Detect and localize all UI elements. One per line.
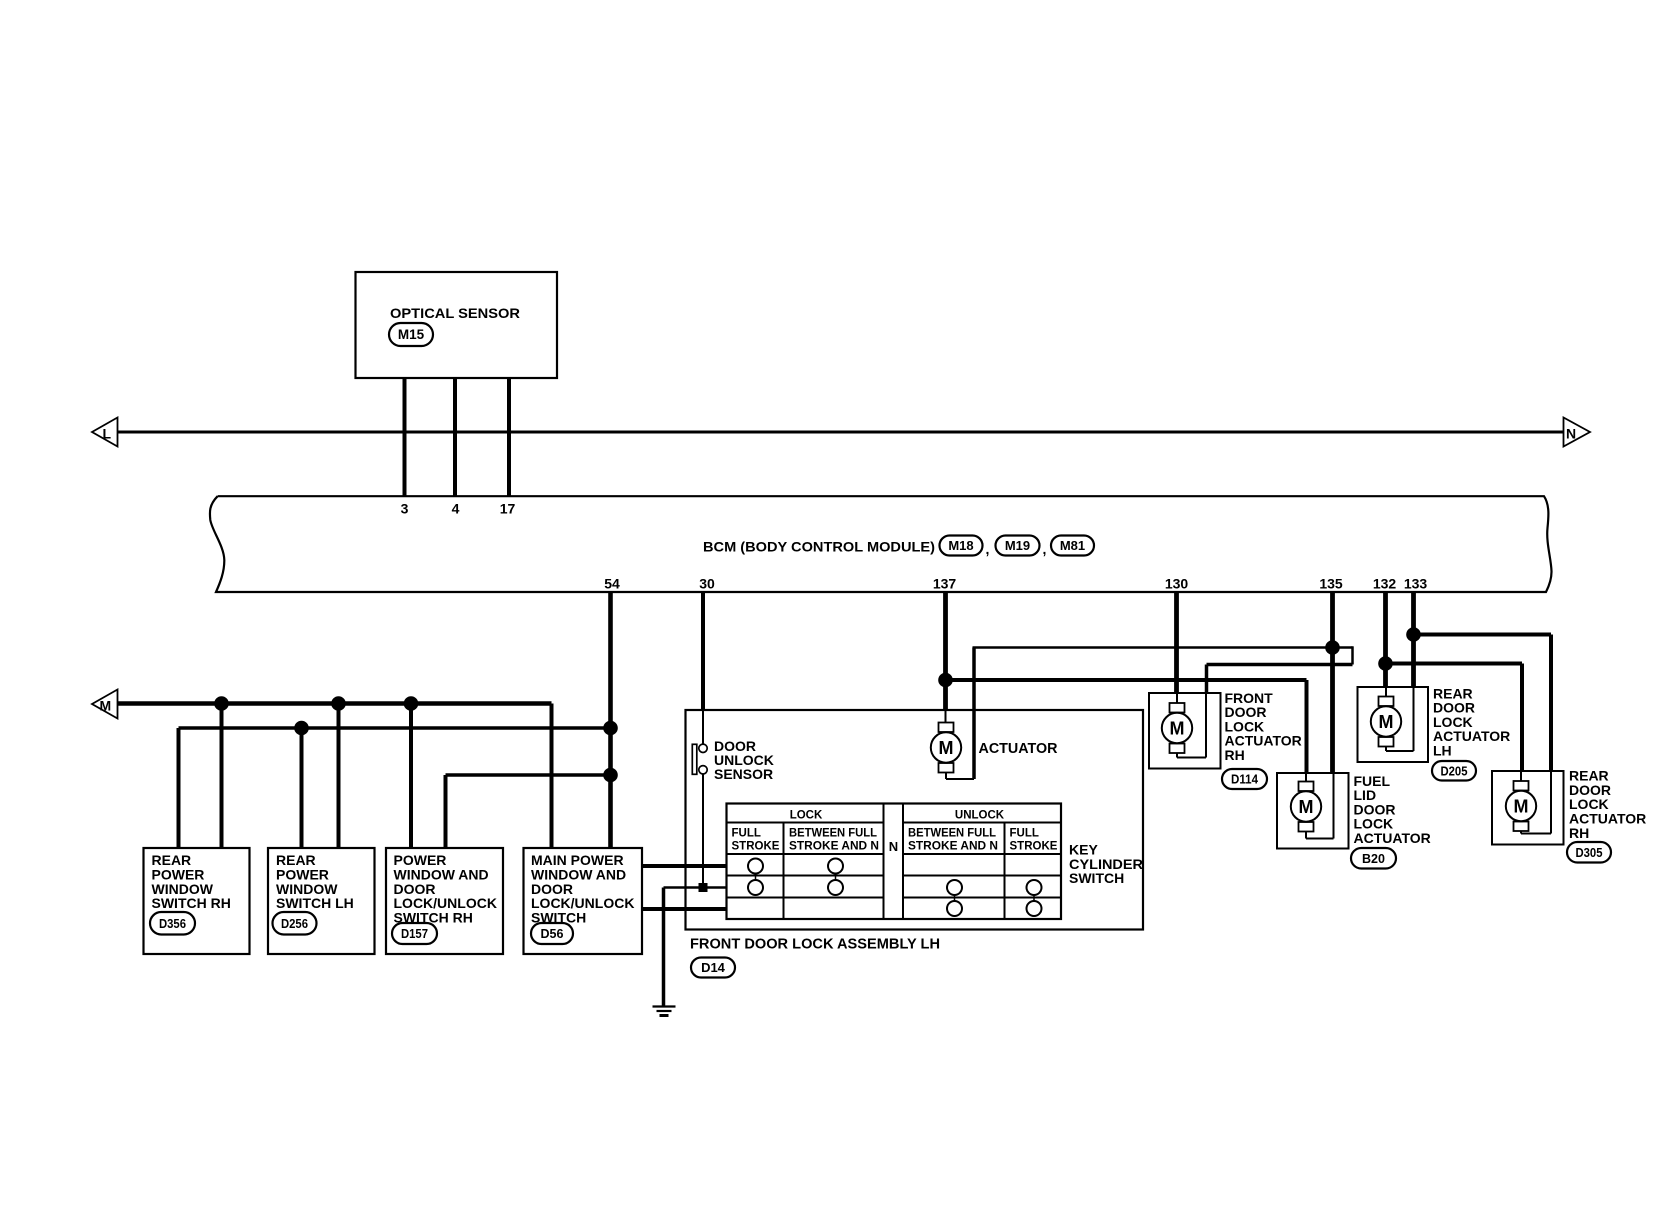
arrow N bbox=[1564, 418, 1591, 447]
svg-text:133: 133 bbox=[1404, 576, 1428, 592]
connector oval D14 bbox=[691, 958, 735, 978]
wire D114 right riser bbox=[1205, 693, 1207, 758]
fuel lid door lock actuator box B20 bbox=[1277, 773, 1349, 849]
motor D305 bbox=[1506, 781, 1536, 831]
junction on M bus 1 bbox=[214, 696, 229, 711]
wire table row1 to main switch bbox=[642, 864, 727, 868]
key cylinder switch table bbox=[727, 804, 1062, 920]
wire sensor to ground stub bbox=[702, 774, 704, 883]
svg-text:132: 132 bbox=[1373, 576, 1397, 592]
wire D114 motor bottom lead bbox=[1176, 753, 1178, 758]
svg-text:D205: D205 bbox=[1441, 764, 1468, 778]
connector oval M15 bbox=[389, 323, 433, 346]
wire actuator bottom to riser bbox=[946, 778, 974, 780]
svg-text:ACTUATOR: ACTUATOR bbox=[1354, 830, 1431, 846]
wire B20 bottom jog bbox=[1306, 838, 1334, 840]
connector oval D205 bbox=[1432, 761, 1476, 781]
wire B20 motor top lead bbox=[1305, 773, 1307, 782]
svg-text:137: 137 bbox=[933, 576, 957, 592]
wire D305 right riser bbox=[1550, 771, 1552, 834]
wire pin 130 bbox=[1174, 592, 1179, 693]
wire D305 motor bottom lead bbox=[1520, 831, 1522, 834]
wire table row2 to ground bbox=[664, 886, 727, 889]
svg-text:ACTUATOR: ACTUATOR bbox=[979, 741, 1059, 757]
wire drop to rear switch LH left pin bbox=[300, 728, 304, 848]
svg-text:M: M bbox=[100, 698, 112, 714]
svg-text:D305: D305 bbox=[1576, 846, 1603, 860]
connector oval D56 bbox=[531, 923, 573, 944]
arrow L bbox=[92, 418, 118, 447]
door unlock sensor bbox=[692, 744, 707, 774]
motor D114 bbox=[1162, 703, 1192, 753]
motor B20 bbox=[1291, 782, 1321, 832]
front door lock actuator RH box D114 bbox=[1149, 693, 1221, 769]
svg-text:LH: LH bbox=[1433, 742, 1452, 758]
connector oval M19 bbox=[996, 536, 1040, 556]
svg-text:SWITCH LH: SWITCH LH bbox=[276, 895, 354, 911]
wire net135 drop into D114 bbox=[1205, 665, 1209, 695]
svg-text:STROKE AND N: STROKE AND N bbox=[908, 841, 998, 853]
table contact circles bbox=[748, 859, 763, 874]
svg-text:4: 4 bbox=[452, 501, 460, 517]
connector oval M18 bbox=[940, 536, 983, 556]
wire net132 drop to D305 bbox=[1520, 664, 1524, 772]
wire net54 lower branch bbox=[446, 773, 611, 777]
wire B20 right riser bbox=[1333, 773, 1335, 839]
wire drop to pw switch RH right pin bbox=[444, 775, 448, 848]
junction net137 bbox=[938, 673, 953, 688]
wire optical pin 4 bbox=[453, 378, 457, 497]
wire pin 54 bbox=[608, 592, 613, 848]
svg-text:M81: M81 bbox=[1060, 538, 1085, 553]
svg-text:M: M bbox=[1299, 797, 1314, 817]
wire drop to rear switch RH bbox=[220, 704, 224, 849]
wire drop to rear switch RH left pin bbox=[177, 728, 181, 848]
svg-text:3: 3 bbox=[401, 501, 409, 517]
wire ground drop bbox=[662, 888, 666, 1007]
connector oval D256 bbox=[273, 912, 317, 935]
power window and door lock unlock switch RH box D157 bbox=[386, 848, 503, 954]
wire actuator motor bottom lead bbox=[945, 773, 947, 780]
svg-text:D114: D114 bbox=[1231, 773, 1258, 787]
svg-text:M: M bbox=[1379, 712, 1394, 732]
svg-text:SWITCH: SWITCH bbox=[1069, 870, 1124, 886]
svg-text:135: 135 bbox=[1319, 576, 1343, 592]
optical sensor box M15 bbox=[356, 272, 558, 378]
wire net135 jog down bbox=[1351, 646, 1354, 664]
arrow M bbox=[92, 690, 118, 719]
svg-text:BETWEEN FULL: BETWEEN FULL bbox=[789, 828, 877, 840]
svg-text:SENSOR: SENSOR bbox=[714, 766, 773, 782]
bus wire L to N bbox=[117, 431, 1564, 434]
svg-text:D356: D356 bbox=[159, 917, 186, 931]
wire optical pin 17 bbox=[507, 378, 511, 497]
junction on wire 54 upper bbox=[603, 721, 618, 736]
junction on wire 54 lower bbox=[603, 768, 618, 783]
wire pin 132 bbox=[1383, 592, 1388, 687]
svg-text:D14: D14 bbox=[701, 960, 726, 975]
svg-text:N: N bbox=[1566, 426, 1576, 442]
wire table row3 to main switch bbox=[642, 907, 727, 911]
connector oval D356 bbox=[150, 912, 195, 935]
wire net133 drop to D305 bbox=[1549, 635, 1553, 772]
wire D114 bottom jog bbox=[1177, 757, 1206, 759]
connector oval M81 bbox=[1051, 536, 1094, 556]
svg-text:LOCK: LOCK bbox=[790, 810, 823, 822]
wire D205 bottom jog bbox=[1386, 750, 1414, 752]
wire pin 30 upper bbox=[701, 592, 705, 710]
svg-text:UNLOCK: UNLOCK bbox=[955, 810, 1005, 822]
connector oval D114 bbox=[1222, 769, 1267, 789]
wire pin 133 bbox=[1411, 592, 1416, 687]
svg-text:STROKE AND N: STROKE AND N bbox=[789, 841, 879, 853]
wire net137 horizontal bbox=[946, 678, 1307, 682]
svg-text:OPTICAL SENSOR: OPTICAL SENSOR bbox=[390, 305, 520, 321]
rear power window switch RH box D356 bbox=[144, 848, 250, 954]
svg-text:RH: RH bbox=[1225, 747, 1245, 763]
wire drop to rear switch LH bbox=[337, 704, 341, 849]
svg-text:N: N bbox=[889, 839, 898, 854]
svg-text:M: M bbox=[1514, 797, 1529, 817]
svg-text:,: , bbox=[986, 541, 990, 557]
connector oval D157 bbox=[392, 923, 437, 944]
svg-text:L: L bbox=[103, 426, 112, 442]
wire B20 motor bottom lead bbox=[1305, 831, 1307, 839]
rear power window switch LH box D256 bbox=[268, 848, 375, 954]
svg-text:130: 130 bbox=[1165, 576, 1189, 592]
connector oval D305 bbox=[1567, 842, 1611, 863]
wire pin 30 lower bbox=[702, 710, 704, 745]
wire pin 135 bbox=[1330, 592, 1335, 773]
svg-text:SWITCH RH: SWITCH RH bbox=[152, 895, 231, 911]
svg-text:D157: D157 bbox=[401, 927, 428, 941]
svg-text:FRONT DOOR LOCK ASSEMBLY LH: FRONT DOOR LOCK ASSEMBLY LH bbox=[690, 937, 940, 953]
svg-text:FULL: FULL bbox=[732, 828, 761, 840]
svg-text:B20: B20 bbox=[1362, 852, 1385, 866]
BCM box bbox=[210, 496, 1552, 592]
wire pin 137 bbox=[943, 592, 948, 710]
wire net132 horizontal bbox=[1386, 662, 1523, 666]
motor D205 bbox=[1371, 697, 1401, 747]
wire M drop to main switch bbox=[550, 704, 554, 849]
junction net133 bbox=[1406, 627, 1421, 642]
wire D205 motor bottom lead bbox=[1385, 746, 1387, 751]
main power window and door lock unlock switch box D56 bbox=[524, 848, 643, 954]
rear door lock actuator RH box D305 bbox=[1492, 771, 1564, 845]
wire optical pin 3 bbox=[403, 378, 407, 497]
svg-text:30: 30 bbox=[699, 576, 715, 592]
ground symbol bbox=[653, 1007, 676, 1016]
svg-text:FULL: FULL bbox=[1010, 828, 1039, 840]
svg-text:,: , bbox=[1043, 541, 1047, 557]
connector oval B20 bbox=[1351, 848, 1396, 869]
wire net137 drop to fuel lid bbox=[1305, 680, 1309, 773]
svg-text:STROKE: STROKE bbox=[1010, 841, 1058, 853]
wire net135 jog top bbox=[1333, 646, 1353, 649]
junction net54 upper bbox=[294, 721, 309, 736]
svg-text:M19: M19 bbox=[1005, 538, 1030, 553]
wire net135 horizontal bbox=[973, 646, 1333, 649]
svg-text:D56: D56 bbox=[541, 927, 564, 941]
front door lock assembly LH box bbox=[686, 710, 1144, 930]
wire D205 motor top lead bbox=[1385, 687, 1387, 697]
svg-text:D256: D256 bbox=[281, 917, 308, 931]
svg-text:M18: M18 bbox=[948, 538, 973, 553]
svg-text:M15: M15 bbox=[398, 327, 425, 342]
svg-text:RH: RH bbox=[1569, 825, 1589, 841]
rear door lock actuator LH box D205 bbox=[1358, 687, 1429, 762]
wire net135 jog horizontal bbox=[1207, 663, 1353, 667]
wire M bus bbox=[117, 701, 552, 706]
wire actuator motor top lead bbox=[945, 710, 947, 723]
wire riser net135 to actuator bbox=[972, 648, 976, 780]
wire net54 upper branch bbox=[179, 726, 611, 730]
contact connectors bbox=[755, 874, 757, 881]
wire D114 motor top lead bbox=[1176, 693, 1178, 704]
wire D205 right riser bbox=[1413, 687, 1415, 751]
junction net135 bbox=[1325, 640, 1340, 655]
wire net133 horizontal bbox=[1414, 633, 1552, 637]
svg-text:M: M bbox=[1170, 719, 1185, 739]
svg-text:17: 17 bbox=[500, 501, 516, 517]
junction on M bus 3 bbox=[404, 696, 419, 711]
svg-text:BCM (BODY CONTROL MODULE): BCM (BODY CONTROL MODULE) bbox=[703, 539, 935, 555]
svg-text:STROKE: STROKE bbox=[732, 841, 780, 853]
svg-text:BETWEEN FULL: BETWEEN FULL bbox=[908, 828, 996, 840]
junction net132 bbox=[1378, 656, 1393, 671]
wire D305 motor top lead bbox=[1520, 771, 1522, 781]
svg-text:54: 54 bbox=[604, 576, 620, 592]
wire D305 bottom jog bbox=[1521, 833, 1551, 835]
svg-text:M: M bbox=[939, 738, 954, 758]
junction square sensor/ground bbox=[699, 883, 708, 892]
junction on M bus 2 bbox=[331, 696, 346, 711]
wire drop to pw switch RH bbox=[409, 704, 413, 849]
motor actuator front door LH bbox=[931, 723, 961, 773]
